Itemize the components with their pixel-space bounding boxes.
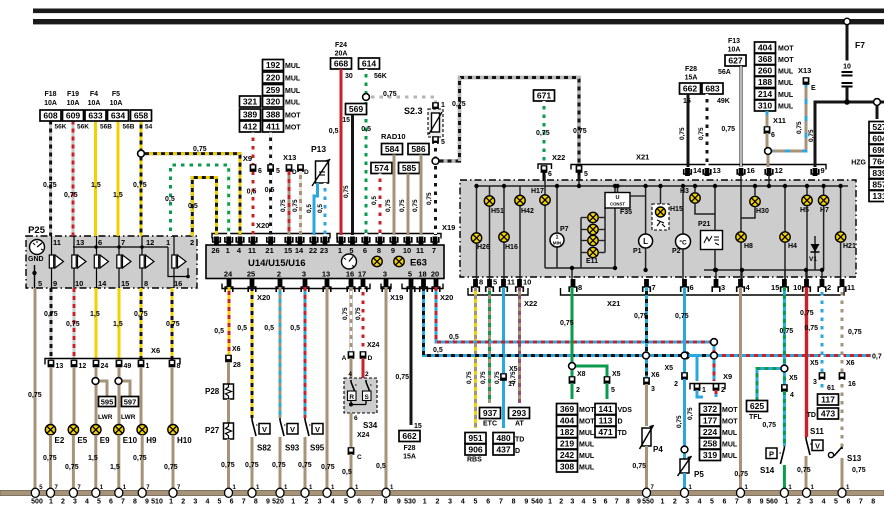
ground bus bar bbox=[0, 491, 884, 496]
X9 pin 6 number bbox=[258, 168, 262, 175]
svg-text:6: 6 bbox=[771, 132, 775, 139]
connector X6 label bbox=[151, 346, 160, 355]
svg-text:P27: P27 bbox=[205, 426, 220, 435]
svg-text:0,75: 0,75 bbox=[721, 126, 735, 133]
svg-text:MUL: MUL bbox=[722, 430, 738, 437]
wire branch to 595 LWR bbox=[96, 381, 108, 396]
svg-text:0,75: 0,75 bbox=[43, 455, 57, 462]
U14/E63 top pin 9 bbox=[391, 237, 396, 256]
code 49K under 683 bbox=[717, 98, 730, 105]
cluster bottom pin 7 at x=646.5 bbox=[643, 279, 656, 292]
cluster bottom pin 5 at x=489.5 bbox=[486, 278, 497, 293]
svg-text:5: 5 bbox=[276, 168, 280, 175]
sensor P13 label bbox=[311, 144, 326, 154]
cluster top pin 9 bbox=[811, 166, 824, 176]
junction LWR left repaint bbox=[92, 378, 99, 385]
wire cyan/black junction to X6 pin 3 bbox=[645, 356, 648, 379]
wire brown S34 pin 6 to X24 C bbox=[350, 413, 353, 448]
destination MUL of 182 (bottom) bbox=[579, 430, 595, 437]
svg-text:11: 11 bbox=[416, 246, 424, 255]
track box 260 bbox=[755, 65, 776, 76]
track box 320 bbox=[263, 96, 284, 107]
track box 369 (bottom) bbox=[557, 404, 578, 415]
svg-text:614: 614 bbox=[362, 59, 377, 69]
junction rail/pin5 bbox=[577, 184, 581, 188]
junction rail H3 bbox=[693, 184, 697, 188]
svg-text:V1: V1 bbox=[809, 256, 817, 263]
track box 627 bbox=[725, 55, 746, 66]
svg-text:TFL: TFL bbox=[749, 414, 763, 421]
P25 GND label and ground pin 5 bbox=[28, 256, 44, 288]
cluster top pin 16 bbox=[737, 166, 755, 176]
U14/E63 top pin 5 bbox=[349, 237, 354, 256]
S2.3 pin 5 number bbox=[441, 139, 445, 146]
0,75 on X13 wire left bbox=[280, 199, 287, 212]
code 56B under 634 bbox=[123, 124, 135, 131]
svg-text:MIN: MIN bbox=[553, 241, 562, 246]
connector X13 pin E bbox=[803, 77, 810, 85]
cluster wire pin16 to H8 bbox=[740, 175, 742, 232]
wire gray/black 0,75 P25 pin 9 to X6 pin 13 bbox=[50, 288, 53, 360]
svg-text:28: 28 bbox=[233, 362, 241, 369]
wire brown lamp E2 to ground bus bbox=[49, 435, 52, 493]
ground bus junction at x=95.8 bbox=[92, 485, 104, 497]
svg-text:1: 1 bbox=[338, 246, 342, 255]
svg-text:49K: 49K bbox=[717, 98, 730, 105]
gauge P7 tachometer bbox=[550, 233, 564, 247]
svg-text:0,75: 0,75 bbox=[399, 199, 406, 212]
svg-text:6: 6 bbox=[98, 238, 102, 247]
track box 906 bbox=[465, 444, 486, 455]
wire cyan 0,75 X22-11 to X5-17 to TD boxes bbox=[502, 287, 505, 428]
svg-text:7: 7 bbox=[242, 499, 246, 506]
wire 412 red/white 0,5 to X9 pin 6 to U14 pin 11 bbox=[252, 133, 255, 236]
svg-text:E11: E11 bbox=[586, 258, 598, 265]
junction rail H21 bbox=[838, 184, 842, 188]
0,75 on pin7 wire bbox=[634, 313, 648, 320]
svg-text:7: 7 bbox=[735, 499, 739, 506]
wire red/brown 0,75 X13-D to U14 pin 15 bbox=[288, 171, 291, 235]
svg-text:8: 8 bbox=[144, 279, 148, 288]
svg-text:530: 530 bbox=[404, 499, 416, 506]
0,5 on wire 574 bbox=[371, 196, 378, 205]
0,75 on wire 671 bbox=[536, 130, 550, 137]
track box 117 bbox=[818, 394, 839, 405]
svg-text:0,75: 0,75 bbox=[245, 462, 259, 469]
svg-text:5: 5 bbox=[38, 279, 42, 288]
H16 label bbox=[505, 244, 518, 251]
svg-text:4: 4 bbox=[331, 499, 335, 506]
ground bus junction at x=327 bbox=[323, 485, 335, 497]
svg-text:F4: F4 bbox=[90, 91, 98, 98]
svg-text:15: 15 bbox=[771, 283, 779, 292]
svg-text:5: 5 bbox=[97, 499, 101, 506]
svg-text:10A: 10A bbox=[88, 100, 101, 107]
destination MUL of 319 (P4 area) bbox=[722, 453, 738, 460]
svg-text:527: 527 bbox=[872, 122, 884, 132]
ground bus junction at x=305 bbox=[301, 485, 313, 497]
svg-text:C: C bbox=[357, 454, 362, 461]
wire green/white 0,5 P25 pin 1 to U14 pin 1 bbox=[171, 165, 229, 236]
code 30 under 668 bbox=[345, 73, 353, 80]
0,75 on pin16 wire bbox=[342, 307, 349, 320]
svg-text:0,75: 0,75 bbox=[762, 422, 776, 429]
svg-text:5: 5 bbox=[408, 270, 412, 279]
wire brown X6-16 to S13 bbox=[841, 379, 844, 447]
svg-text:H21: H21 bbox=[843, 243, 856, 250]
cluster H21 column bbox=[840, 186, 842, 232]
0,75 on wire 658 bbox=[133, 182, 147, 189]
svg-text:5: 5 bbox=[611, 387, 615, 394]
gauge P2 temperature bbox=[676, 234, 691, 249]
svg-text:0,5: 0,5 bbox=[214, 328, 224, 335]
P25 dimmer element 3 bbox=[94, 236, 108, 288]
lamp E10 bbox=[114, 425, 124, 435]
svg-text:609: 609 bbox=[66, 111, 81, 121]
svg-text:4: 4 bbox=[348, 371, 352, 378]
cluster wire E11 common down bbox=[580, 253, 582, 269]
junction rail H16 bbox=[502, 184, 506, 188]
svg-text:0,75: 0,75 bbox=[573, 128, 587, 135]
svg-text:7: 7 bbox=[432, 246, 436, 255]
connector pin 5 of S2.3 bbox=[432, 136, 439, 144]
wire cyan 0,75 cluster pin 6 down bbox=[683, 287, 686, 356]
svg-text:MUL: MUL bbox=[579, 453, 595, 460]
S14 label bbox=[760, 466, 775, 475]
X13 pin E letter bbox=[811, 85, 816, 92]
P25 dimmer element 2 bbox=[72, 236, 86, 288]
junction above P5 bbox=[681, 446, 688, 453]
track box 595 bbox=[99, 397, 116, 407]
cluster bottom pin 8 at x=475.5 bbox=[472, 278, 483, 293]
svg-text:X13: X13 bbox=[798, 66, 811, 75]
svg-text:F19: F19 bbox=[67, 91, 79, 98]
svg-text:P7: P7 bbox=[560, 226, 569, 233]
svg-text:CONST: CONST bbox=[610, 202, 625, 207]
track box 604 (right edge) bbox=[869, 133, 884, 144]
0,75 on X19-7 wire bbox=[426, 192, 433, 205]
svg-text:H16: H16 bbox=[505, 244, 518, 251]
track box 764 (right edge) bbox=[869, 156, 884, 167]
svg-text:12: 12 bbox=[146, 238, 154, 247]
power bus bar 15 (second) bbox=[33, 19, 884, 24]
pin bracket above U14 top pin 11 bbox=[417, 237, 425, 242]
wire green X5-5 to 141 stack bbox=[606, 383, 609, 399]
svg-text:H10: H10 bbox=[177, 436, 192, 445]
svg-text:26: 26 bbox=[211, 246, 219, 255]
U14/E63 bottom pin 17 bbox=[358, 270, 366, 288]
svg-text:4: 4 bbox=[790, 392, 794, 399]
svg-text:0,75: 0,75 bbox=[412, 199, 419, 212]
lamp H51 bbox=[484, 196, 494, 206]
svg-text:ETC: ETC bbox=[483, 421, 497, 428]
fuse F19 label bbox=[67, 91, 80, 107]
connector X24 label (bottom) bbox=[357, 432, 370, 439]
connector X11 pin 6 bbox=[764, 126, 771, 134]
U14/E63 top pin 11 bbox=[416, 237, 424, 256]
junction 342 repaint bbox=[711, 339, 718, 346]
svg-text:H8: H8 bbox=[744, 243, 753, 250]
wire brown 0,75 cluster pin 4 to ground bus bbox=[739, 287, 742, 493]
svg-text:15A: 15A bbox=[403, 454, 416, 461]
track box 633 bbox=[85, 110, 106, 121]
svg-text:MUL: MUL bbox=[778, 69, 794, 76]
0,75 under S13 bbox=[852, 467, 866, 474]
svg-text:RAD10: RAD10 bbox=[381, 132, 406, 141]
pin bracket above U14 top pin 21 bbox=[267, 237, 275, 242]
svg-text:0,5: 0,5 bbox=[361, 126, 371, 133]
connector X20 bracket (U14 bottom) bbox=[222, 284, 370, 289]
cluster wire P21 up bbox=[714, 186, 716, 231]
svg-text:0,75: 0,75 bbox=[133, 182, 147, 189]
1,5 on wire 633 bbox=[91, 182, 101, 189]
svg-text:3: 3 bbox=[570, 499, 574, 506]
ground bus junction at x=252 bbox=[248, 485, 260, 497]
lamp H16 bbox=[499, 232, 509, 242]
connector X6 label (28) bbox=[232, 346, 241, 353]
connector X9 label (bottom) bbox=[723, 372, 732, 381]
ground bus junction at x=173 bbox=[169, 485, 181, 497]
destination MUL of 192 bbox=[285, 63, 301, 70]
0,75 on branch to U14 pin 4 bbox=[193, 146, 207, 153]
0,75 on pin2 wire (right) bbox=[804, 325, 818, 332]
svg-text:6: 6 bbox=[230, 499, 234, 506]
P25 top pin 13 label bbox=[76, 238, 84, 247]
wire cyan/white X5-3 to 117 box bbox=[821, 379, 824, 389]
svg-text:0,75: 0,75 bbox=[280, 199, 287, 212]
track box 219 (bottom) bbox=[557, 438, 578, 449]
svg-text:H17: H17 bbox=[531, 188, 544, 195]
0,75 under S82 bbox=[245, 462, 259, 469]
U14/E63 bottom pin 3 bbox=[302, 270, 307, 288]
track box 696 (right edge) bbox=[869, 145, 884, 156]
U14/U15/U16 label bbox=[248, 258, 306, 269]
svg-text:MUL: MUL bbox=[778, 80, 794, 87]
svg-text:473: 473 bbox=[821, 409, 836, 419]
svg-text:A: A bbox=[342, 355, 347, 362]
cluster wire P21 down bbox=[714, 250, 716, 271]
cluster internal supply rail bbox=[477, 185, 849, 187]
wire P5 to ground bus bbox=[683, 473, 686, 493]
junction wire 614 repaint bbox=[363, 94, 370, 101]
P25 internal bottom jog bbox=[168, 247, 190, 278]
svg-text:56K: 56K bbox=[55, 124, 67, 131]
0,75 on pin10 wire bbox=[66, 321, 80, 328]
0,75 on pin16 wire bbox=[166, 321, 180, 328]
connector X19 bracket (E63 top) bbox=[337, 234, 441, 239]
svg-text:MUL: MUL bbox=[579, 442, 595, 449]
61 label bbox=[827, 385, 835, 392]
junction rail H7 bbox=[821, 184, 825, 188]
svg-text:3: 3 bbox=[318, 499, 322, 506]
ground bus junction at x=50.5 bbox=[47, 485, 59, 497]
destination MOT of 372 (P4 area) bbox=[722, 407, 738, 414]
svg-text:LWR: LWR bbox=[121, 414, 136, 421]
svg-text:0,75: 0,75 bbox=[221, 462, 235, 469]
svg-text:9: 9 bbox=[821, 166, 825, 175]
svg-text:0,5: 0,5 bbox=[247, 189, 257, 196]
wire brown S95 to ground bus bbox=[304, 437, 307, 493]
connector X21 bracket (top) bbox=[571, 165, 826, 170]
svg-text:24: 24 bbox=[101, 363, 109, 370]
svg-text:0,7: 0,7 bbox=[872, 354, 882, 361]
svg-text:625: 625 bbox=[750, 401, 765, 411]
0,5 under E63 pin3 bbox=[376, 463, 386, 470]
svg-text:F28: F28 bbox=[403, 445, 415, 452]
E63 lamp symbol 2 bbox=[394, 256, 404, 266]
svg-text:X21: X21 bbox=[607, 299, 620, 308]
wire branch to 597 LWR bbox=[119, 381, 131, 396]
wire 671 green/white 0,75 to X22 pin 6 bbox=[543, 101, 546, 166]
0,75 under lamp E2 bbox=[43, 455, 57, 462]
X6 pin 3 number bbox=[651, 386, 655, 393]
cluster wire H8 down bbox=[740, 243, 742, 280]
P25 internal top rail bbox=[73, 245, 168, 249]
svg-text:10: 10 bbox=[843, 64, 851, 71]
U14/E63 bottom pin 13 bbox=[322, 270, 330, 288]
svg-text:0,5: 0,5 bbox=[188, 203, 198, 210]
HZG label bbox=[851, 160, 866, 167]
wire 585 brown 0,75 to E63 pin 10 bbox=[407, 174, 410, 236]
X6 pin 16 number bbox=[848, 381, 856, 388]
0,5 under X24-C bbox=[342, 469, 352, 476]
S34 contact S bbox=[363, 380, 373, 401]
cluster wire H21 down bbox=[840, 243, 842, 280]
wire distribution to X21 pin 9 bbox=[815, 102, 877, 167]
svg-text:412: 412 bbox=[243, 122, 258, 132]
svg-text:HZG: HZG bbox=[851, 160, 866, 167]
wire brown S82 to ground bus bbox=[251, 437, 254, 493]
switch S93 V box bbox=[287, 424, 298, 435]
P4 label bbox=[653, 445, 663, 454]
pin bracket below U14 bottom pin 16 bbox=[347, 287, 355, 292]
svg-text:5: 5 bbox=[593, 499, 597, 506]
wire cyan/red junction to X9 pin 2 bbox=[713, 356, 716, 382]
svg-text:2: 2 bbox=[190, 238, 194, 247]
svg-text:54: 54 bbox=[145, 124, 153, 131]
connector X21 label (top) bbox=[636, 153, 649, 162]
cluster wire H5 up bbox=[806, 186, 808, 195]
track number strip bbox=[31, 499, 875, 506]
svg-text:0,75: 0,75 bbox=[804, 325, 818, 332]
svg-text:0,5: 0,5 bbox=[317, 204, 324, 213]
0,75 under S93 bbox=[272, 462, 286, 469]
0,75 on X22-5 wire bbox=[480, 371, 487, 384]
svg-text:13: 13 bbox=[713, 166, 721, 175]
junction rail H5 bbox=[805, 184, 809, 188]
S34 internal common bbox=[349, 401, 366, 407]
svg-text:595: 595 bbox=[101, 398, 114, 407]
svg-text:131: 131 bbox=[872, 191, 884, 201]
svg-text:7: 7 bbox=[499, 499, 503, 506]
connector X6 pin 24 bbox=[93, 360, 109, 370]
svg-text:TD: TD bbox=[807, 412, 816, 419]
connector X20 label (U14 bottom) bbox=[257, 293, 270, 302]
0,75 on wire 627 bbox=[721, 126, 735, 133]
wire yellow/brown 0,75 X22-8 to RBS boxes bbox=[474, 287, 477, 428]
svg-text:0,75: 0,75 bbox=[808, 129, 815, 142]
svg-text:L: L bbox=[643, 237, 648, 246]
cluster wire P1 down bbox=[645, 248, 647, 270]
svg-text:H9: H9 bbox=[146, 436, 157, 445]
connector X5 pin 2 (P5) bbox=[681, 372, 688, 380]
wire brown X6 to lamp at x=172 bbox=[171, 367, 174, 425]
svg-text:MOT: MOT bbox=[778, 57, 794, 64]
switch unit S34 box bbox=[344, 378, 377, 413]
svg-text:0,75: 0,75 bbox=[64, 192, 78, 199]
svg-text:P13: P13 bbox=[311, 144, 326, 154]
svg-text:5: 5 bbox=[584, 171, 588, 178]
wire cyan X5-2 to P5 junction bbox=[683, 379, 686, 450]
destination MOT of 411 bbox=[285, 125, 301, 132]
switch S95 bbox=[305, 418, 312, 436]
P25 dimmer element 5 bbox=[140, 236, 154, 288]
junction right edge repaint bbox=[874, 99, 881, 106]
junction rail P21 bbox=[713, 184, 717, 188]
svg-text:0,75: 0,75 bbox=[797, 467, 811, 474]
svg-text:8: 8 bbox=[133, 499, 137, 506]
switch S2.3 label bbox=[404, 106, 423, 116]
junction pin6 repaint bbox=[681, 352, 688, 359]
svg-text:0,75: 0,75 bbox=[133, 455, 147, 462]
connector X22 label (bottom) bbox=[524, 299, 537, 308]
destination MOT of 369 (bottom) bbox=[579, 407, 595, 414]
pin bracket below U14 bottom pin 18 bbox=[420, 287, 428, 292]
wire brown S13 to ground bus bbox=[841, 458, 844, 493]
svg-text:388: 388 bbox=[266, 110, 281, 120]
pin bracket below U14 bottom pin 13 bbox=[323, 287, 331, 292]
svg-text:U14/U15/U16: U14/U15/U16 bbox=[248, 258, 306, 269]
junction TFL repaint bbox=[781, 365, 788, 372]
svg-text:0,75: 0,75 bbox=[134, 311, 148, 318]
svg-text:D: D bbox=[292, 169, 297, 176]
cluster wire H3 to P21 column bbox=[695, 204, 715, 214]
svg-text:X11: X11 bbox=[773, 116, 786, 125]
S34 label bbox=[363, 421, 378, 430]
svg-text:12: 12 bbox=[775, 166, 783, 175]
E63 lamp symbol 1 bbox=[372, 256, 382, 266]
X6 pin 28 number bbox=[233, 362, 241, 369]
svg-text:56B: 56B bbox=[100, 124, 112, 131]
1,5 on pin14 wire bbox=[90, 311, 100, 318]
track box 668 bbox=[331, 58, 352, 69]
svg-text:MOT: MOT bbox=[285, 113, 301, 120]
fuse F4 label bbox=[88, 91, 101, 107]
fuse F24 label bbox=[335, 42, 348, 58]
wire green X8-2 to 369 stack bbox=[571, 383, 574, 399]
cluster bottom pin 15 at x=784.4 bbox=[771, 279, 788, 292]
wire cyan/red link down bbox=[713, 342, 716, 356]
wire green 0,75 cluster pin 8 to junction bbox=[571, 287, 574, 366]
wire cyan/red 0,5 E63 pin 20 horizontal run bbox=[436, 287, 714, 342]
cluster wire H42 column bbox=[519, 186, 521, 279]
cluster wire pin10 internal bbox=[805, 270, 807, 279]
cluster wire pin5 to rail bbox=[578, 175, 580, 186]
svg-text:9: 9 bbox=[397, 499, 401, 506]
H21 label bbox=[843, 243, 856, 250]
junction on wire 658 bbox=[138, 150, 145, 157]
wire brown X6 to lamp at x=96 bbox=[95, 367, 98, 425]
junction green repaint bbox=[569, 363, 576, 370]
wire brown P4 to ground bus bbox=[645, 446, 648, 493]
svg-text:H51: H51 bbox=[491, 208, 504, 215]
svg-text:LWR: LWR bbox=[98, 414, 113, 421]
wire 411 black/white 0,5 to X9 pin 5 to U14 pin 21 bbox=[269, 133, 272, 236]
0,75 on S14 wire bbox=[762, 422, 776, 429]
svg-text:12: 12 bbox=[79, 363, 87, 370]
svg-text:520: 520 bbox=[272, 499, 284, 506]
connector X6 pin 12 bbox=[71, 360, 87, 370]
